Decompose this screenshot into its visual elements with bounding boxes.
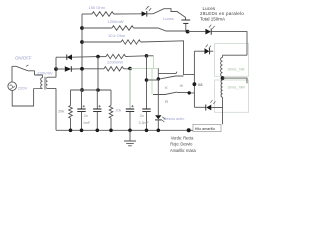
node bus-rail2 <box>80 26 84 30</box>
coil L1 <box>221 57 223 76</box>
resistor R2 20k <box>109 90 113 130</box>
node C4 tap <box>145 78 149 82</box>
capacitor C2 <box>93 90 101 130</box>
svg-text:ON/OFF: ON/OFF <box>15 56 32 61</box>
svg-text:Rojo: Desvio: Rojo: Desvio <box>170 142 193 147</box>
LED D7 <box>194 45 213 55</box>
resistor R5 <box>82 40 195 75</box>
wire rail1 jog <box>147 9 186 20</box>
svg-text:2200mW: 2200mW <box>107 60 123 65</box>
ground <box>124 130 136 146</box>
node bottom LED <box>157 129 161 133</box>
svg-text:HI: HI <box>180 84 184 88</box>
wire tap to switch <box>147 79 159 81</box>
svg-text:220V: 220V <box>18 85 28 90</box>
node bottom C4 <box>145 129 149 133</box>
wire switch-LED drop <box>157 79 159 130</box>
label box Hilo amarillo <box>193 124 221 131</box>
node bus-rail3 <box>80 40 84 44</box>
wire secondary <box>48 69 57 130</box>
svg-text:220V/9V: 220V/9V <box>37 71 53 76</box>
wire rowA drop <box>97 57 99 90</box>
wire bottom rail <box>56 129 193 131</box>
svg-text:20k: 20k <box>58 108 64 113</box>
svg-text:2x: 2x <box>140 114 144 118</box>
node bottom end <box>187 128 191 132</box>
node bus-caprail <box>80 88 84 92</box>
svg-text:30mL_NR: 30mL_NR <box>228 67 245 71</box>
node rowA-left <box>96 55 100 59</box>
node bottom C3-ground <box>128 129 132 133</box>
node rowB-right <box>128 67 132 71</box>
AC source V1 <box>8 82 17 91</box>
switch SW1 ON/OFF <box>12 65 35 71</box>
resistor R1 20k <box>69 90 73 130</box>
svg-text:1200mW: 1200mW <box>108 19 124 24</box>
switch SW2 <box>158 68 183 79</box>
node X8 <box>193 82 197 86</box>
resistor R6 <box>98 54 147 58</box>
capacitor C3 <box>126 68 134 130</box>
diode D1 <box>56 54 98 69</box>
node bottom C2 <box>96 129 100 133</box>
svg-text:Total 150mA: Total 150mA <box>200 16 225 21</box>
node bottom C1 <box>80 129 84 133</box>
capacitor C4 <box>142 56 150 131</box>
svg-text:Hilo amarillo: Hilo amarillo <box>195 127 215 131</box>
svg-text:Desvio activ.: Desvio activ. <box>164 117 185 121</box>
wire primary loop <box>12 66 43 106</box>
node coil junction <box>221 76 225 80</box>
switch SW3 R <box>153 92 194 94</box>
svg-text:Luces: Luces <box>163 16 174 21</box>
node SW2 pole <box>157 77 160 80</box>
resistor R4 <box>82 26 186 31</box>
wire green branch <box>130 56 158 95</box>
node rowA-right <box>145 54 149 58</box>
module box 1 <box>215 44 249 77</box>
wire coil junction stub <box>223 78 248 83</box>
capacitor C1 <box>77 90 85 130</box>
wire to coil1 top <box>211 32 247 58</box>
svg-text:3.3mF: 3.3mF <box>139 121 150 125</box>
node bus-rowB <box>80 67 84 71</box>
resistor R7 <box>104 67 130 71</box>
LED D6 <box>188 25 215 35</box>
battery B1 <box>181 20 190 32</box>
svg-text:Amarillo: masa: Amarillo: masa <box>170 148 196 153</box>
node SW3 contact <box>188 91 191 94</box>
svg-text:1mF: 1mF <box>83 121 91 125</box>
svg-text:10 k Ohm: 10 k Ohm <box>108 33 126 38</box>
coil L2 <box>221 80 222 124</box>
svg-text:150 Ohm: 150 Ohm <box>89 5 106 10</box>
node caprail-c2 <box>96 88 100 92</box>
node bottom R2 <box>109 129 113 133</box>
svg-text:20k: 20k <box>116 109 122 113</box>
svg-text:R: R <box>165 100 168 104</box>
wire rowA stub <box>147 55 154 57</box>
svg-text:K: K <box>165 85 168 90</box>
diode D2 <box>56 66 104 72</box>
svg-text:28LEDs en paralelo: 28LEDs en paralelo <box>200 11 244 16</box>
LED D9 indicator <box>155 115 165 122</box>
wire left bus vertical <box>81 14 83 90</box>
wire X8 vertical <box>193 51 195 107</box>
svg-text:2x: 2x <box>84 114 88 118</box>
transformer T1 220V/9V <box>34 77 48 90</box>
resistor R3 <box>82 12 142 17</box>
node secondary-top <box>54 67 58 71</box>
LED D5 <box>142 6 152 16</box>
svg-text:X8: X8 <box>198 83 203 87</box>
node bottom R1 <box>69 129 73 133</box>
svg-text:Verde: Recta: Verde: Recta <box>171 135 194 140</box>
LED D8 <box>194 100 222 110</box>
module box 2 <box>215 80 249 112</box>
node rail2-battery <box>186 30 190 34</box>
wire cap rail <box>71 89 112 91</box>
svg-text:30mL_MR: 30mL_MR <box>228 85 246 89</box>
